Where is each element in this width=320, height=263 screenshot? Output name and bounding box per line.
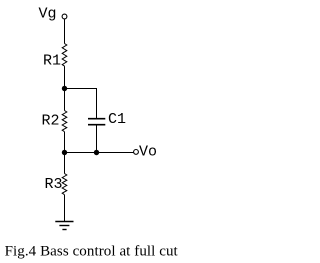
wire C1 to node B	[96, 126, 98, 153]
junction node B left	[62, 150, 67, 155]
capacitor C1 top plate	[88, 118, 105, 120]
capacitor C1 bottom plate	[88, 124, 105, 126]
svg-text:Vo: Vo	[139, 144, 157, 161]
resistor R1	[62, 44, 67, 67]
wire Vg to R1	[64, 19, 66, 43]
resistor R3	[62, 174, 67, 195]
wire R1 to node A	[64, 66, 66, 88]
wire R2 to node B	[64, 132, 66, 152]
ground	[55, 222, 73, 230]
wire C1 branch down	[96, 88, 98, 118]
wire R3 to ground	[64, 195, 66, 222]
svg-text:Vg: Vg	[39, 6, 57, 23]
svg-text:C1: C1	[108, 111, 126, 128]
wire node A down to R2	[64, 88, 66, 111]
svg-text:Fig.4 Bass control at full cut: Fig.4 Bass control at full cut	[5, 244, 179, 260]
junction node A	[62, 86, 67, 91]
resistor R2	[62, 111, 67, 132]
junction node B right	[94, 150, 99, 155]
svg-text:R1: R1	[43, 53, 61, 70]
wire node B down to R3	[64, 152, 66, 174]
terminal Vo	[134, 150, 139, 155]
svg-text:R3: R3	[45, 176, 63, 193]
wire node B to Vo	[65, 152, 134, 154]
terminal Vg	[62, 14, 67, 19]
svg-text:R2: R2	[42, 113, 60, 130]
wire node A to C1 branch (horizontal)	[65, 88, 97, 90]
